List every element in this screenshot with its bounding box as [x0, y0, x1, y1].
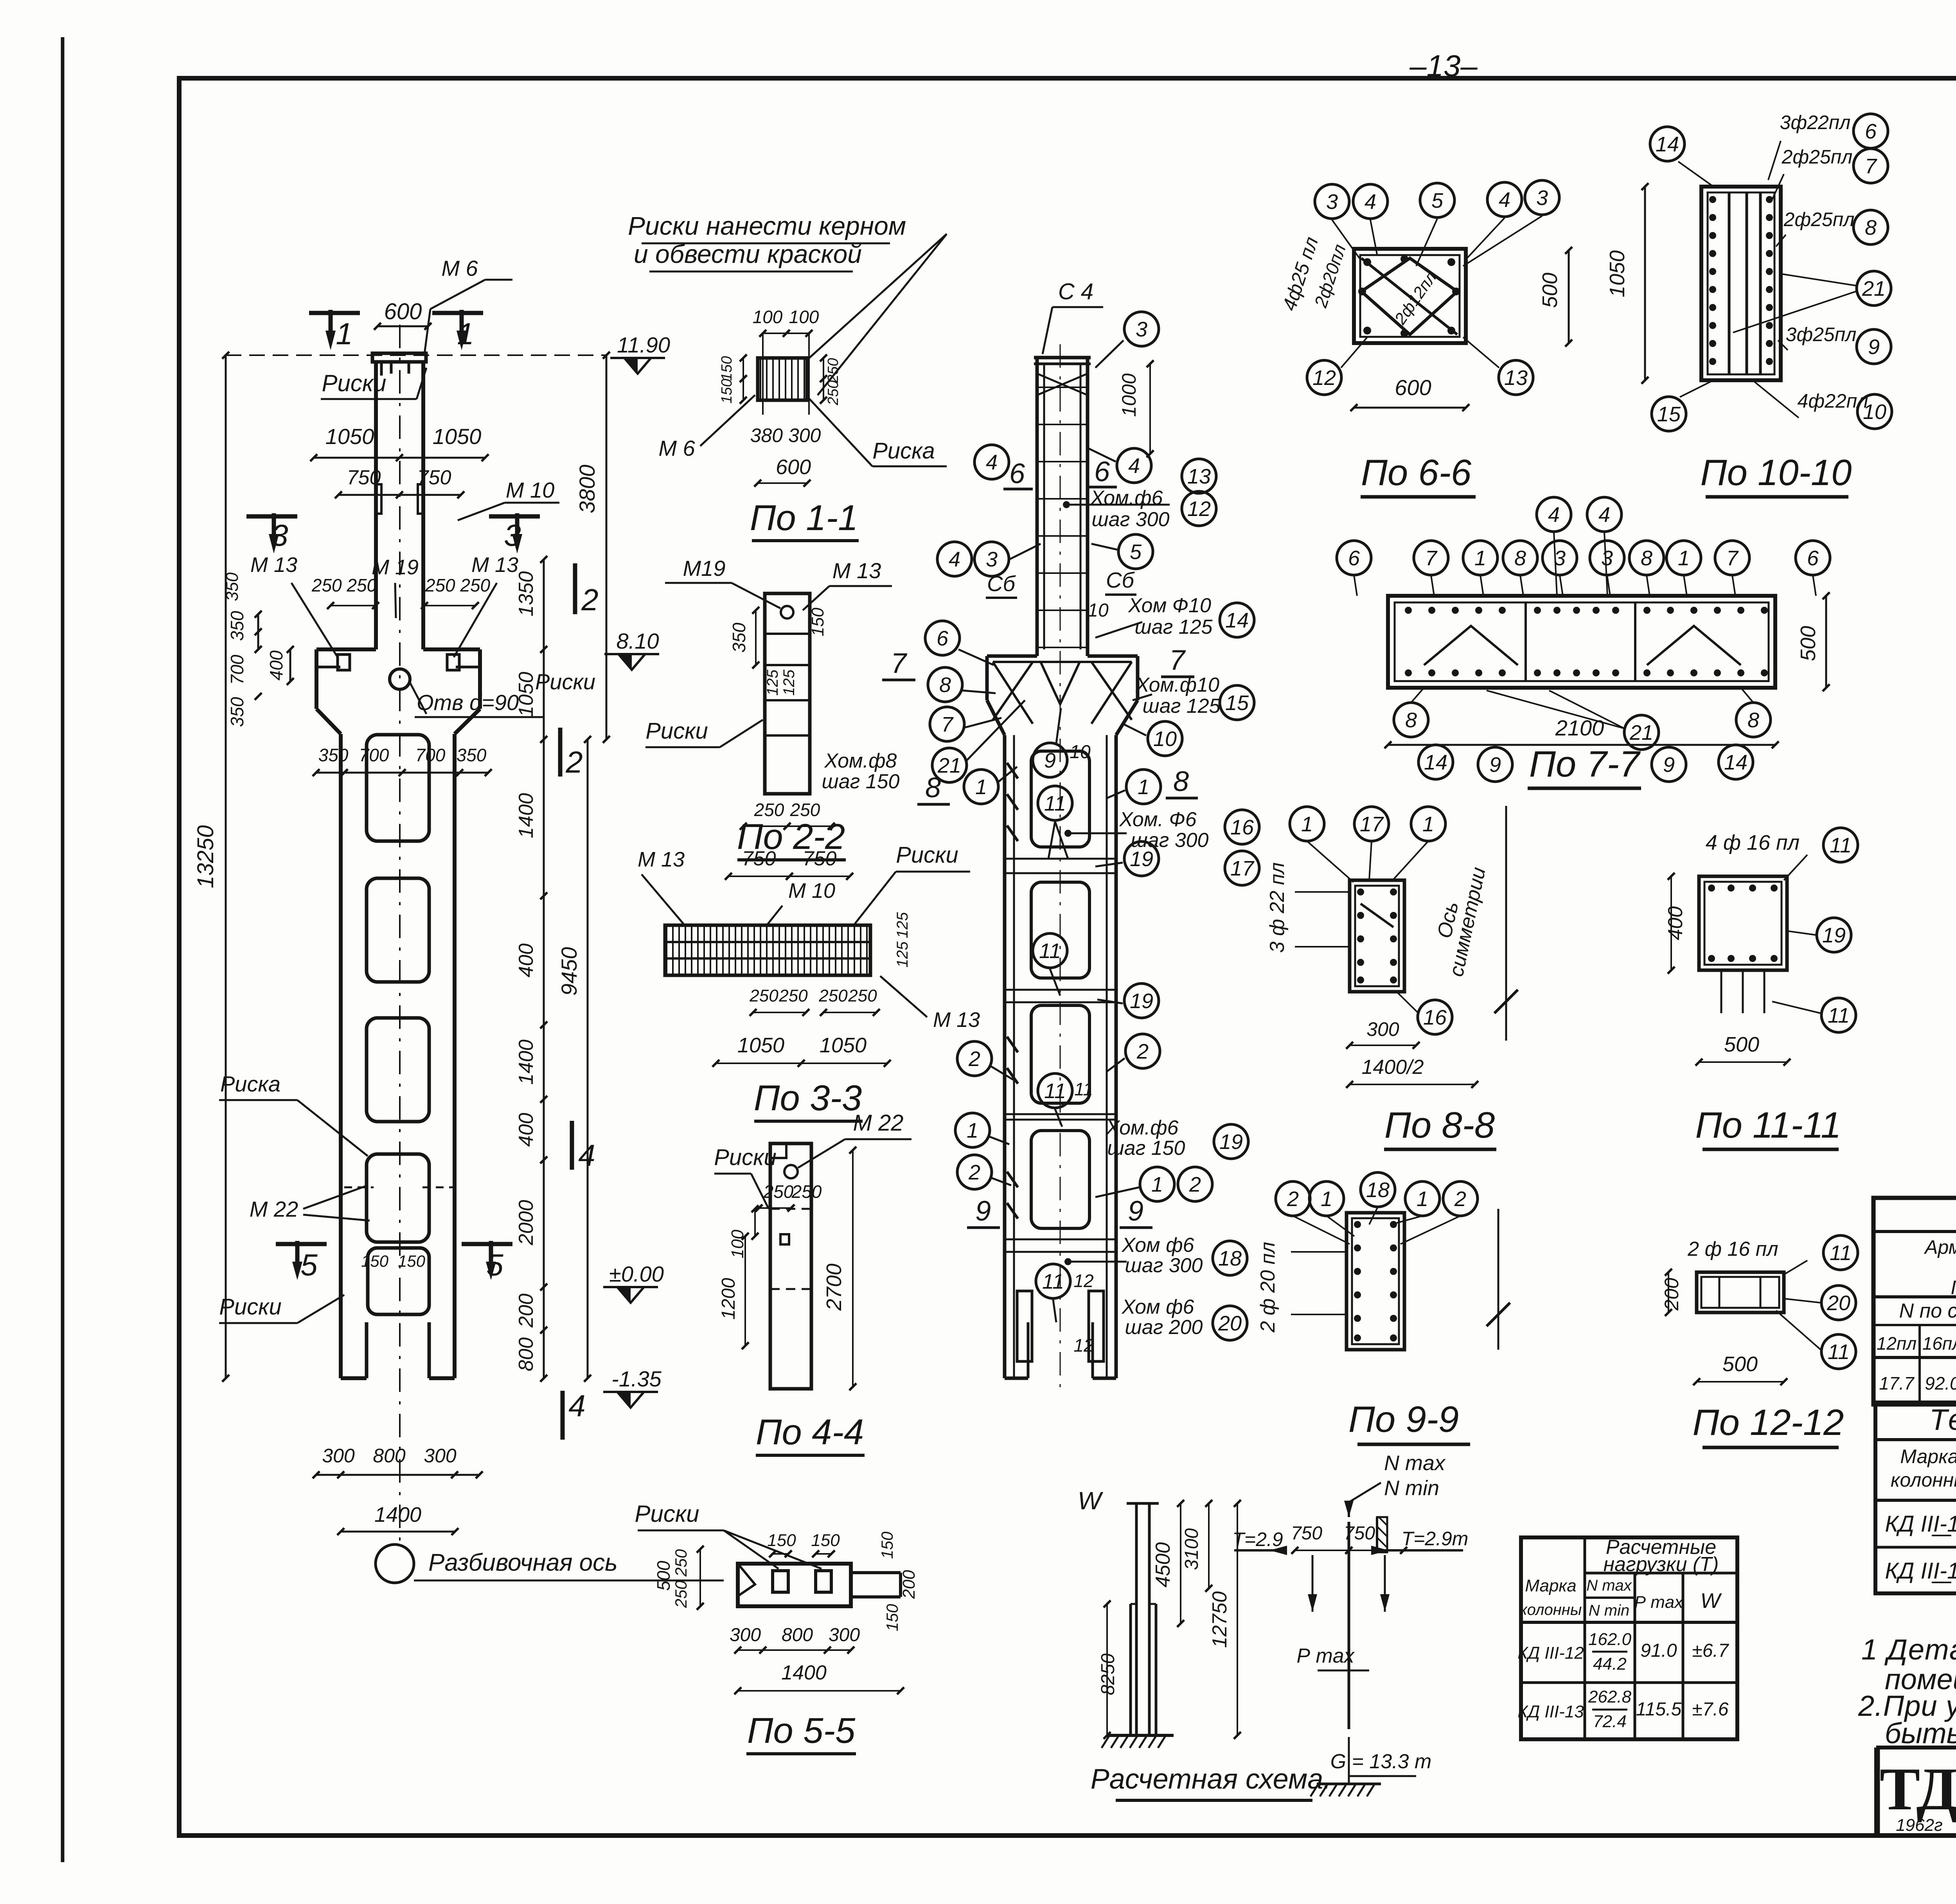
- svg-text:По 7-7: По 7-7: [1529, 743, 1641, 784]
- svg-text:15: 15: [1225, 691, 1249, 715]
- title block: [1876, 1745, 1956, 1836]
- svg-text:4: 4: [568, 1388, 585, 1423]
- svg-text:1: 1: [336, 316, 352, 351]
- svg-text:Марка: Марка: [1900, 1446, 1956, 1467]
- svg-text:400: 400: [515, 944, 538, 978]
- svg-text:Риски нанести керном: Риски нанести керном: [628, 211, 906, 240]
- svg-text:6: 6: [1094, 456, 1110, 487]
- svg-text:4: 4: [1128, 454, 1140, 478]
- svg-text:5: 5: [1130, 540, 1142, 564]
- svg-text:11: 11: [1042, 1270, 1064, 1293]
- section По 11-11: [1664, 828, 1858, 1149]
- svg-text:115.5: 115.5: [1636, 1699, 1682, 1720]
- svg-text:16пл: 16пл: [1922, 1333, 1956, 1354]
- svg-text:М 13: М 13: [250, 553, 297, 577]
- svg-text:18: 18: [1366, 1178, 1390, 1202]
- svg-text:125: 125: [780, 669, 798, 696]
- svg-text:5: 5: [300, 1248, 318, 1282]
- svg-text:С 4: С 4: [1058, 279, 1093, 304]
- svg-text:6: 6: [1865, 120, 1877, 143]
- svg-text:Сб: Сб: [987, 571, 1016, 596]
- svg-text:19: 19: [1130, 847, 1153, 871]
- svg-text:1: 1: [1678, 547, 1690, 570]
- svg-text:44.2: 44.2: [1593, 1654, 1627, 1674]
- svg-text:250: 250: [749, 986, 778, 1005]
- svg-text:Т=2.9: Т=2.9: [1232, 1528, 1283, 1550]
- svg-text:12: 12: [1073, 1271, 1093, 1291]
- svg-text:9: 9: [1663, 753, 1675, 777]
- section По 8-8: [1266, 806, 1518, 1149]
- svg-text:2: 2: [581, 583, 598, 617]
- svg-text:3: 3: [1326, 190, 1338, 214]
- svg-text:350: 350: [457, 745, 487, 765]
- svg-text:Хом.ф10: Хом.ф10: [1135, 674, 1219, 696]
- central column labels and balloons: [822, 279, 1259, 1356]
- svg-text:±6.7: ±6.7: [1692, 1640, 1729, 1661]
- svg-text:125: 125: [764, 669, 781, 696]
- section По 3-3: [638, 842, 980, 1121]
- svg-text:Хом.ф6: Хом.ф6: [1106, 1117, 1179, 1139]
- svg-text:2: 2: [1136, 1040, 1149, 1063]
- svg-text:21: 21: [1629, 721, 1653, 744]
- svg-text:19: 19: [1219, 1130, 1243, 1154]
- svg-text:шаг 300: шаг 300: [1125, 1254, 1203, 1277]
- svg-text:М 13: М 13: [832, 558, 881, 583]
- svg-text:1050: 1050: [433, 424, 482, 449]
- svg-text:7: 7: [1726, 547, 1739, 570]
- svg-text:3ф22пл: 3ф22пл: [1780, 111, 1851, 133]
- svg-text:6: 6: [1348, 547, 1360, 570]
- svg-text:300: 300: [730, 1625, 761, 1645]
- svg-text:М 10: М 10: [506, 478, 555, 502]
- svg-text:150: 150: [719, 356, 735, 381]
- svg-text:М 10: М 10: [788, 879, 835, 903]
- section По 2-2: [645, 556, 892, 860]
- svg-text:2ф25пл: 2ф25пл: [1783, 209, 1855, 230]
- svg-text:2ф25пл: 2ф25пл: [1782, 146, 1853, 168]
- svg-text:7: 7: [1169, 645, 1186, 676]
- section По 5-5: [635, 1501, 919, 1754]
- table: Выборка стали на колонну (кг): [1404, 1192, 1956, 1404]
- svg-text:шаг 300: шаг 300: [1092, 508, 1170, 531]
- svg-text:колонны: колонны: [1891, 1469, 1956, 1491]
- svg-text:350: 350: [729, 622, 749, 653]
- svg-text:Хом.ф6: Хом.ф6: [1090, 487, 1163, 509]
- section По 1-1: [658, 307, 947, 541]
- svg-text:1400: 1400: [515, 1039, 538, 1085]
- svg-text:200: 200: [515, 1294, 538, 1328]
- svg-text:Риски: Риски: [322, 370, 386, 396]
- svg-text:19: 19: [1130, 989, 1153, 1013]
- svg-text:150: 150: [883, 1604, 901, 1631]
- svg-text:2100: 2100: [1555, 716, 1604, 740]
- svg-text:1: 1: [1417, 1187, 1428, 1211]
- svg-text:12: 12: [1187, 497, 1211, 521]
- svg-text:8: 8: [1514, 547, 1526, 570]
- svg-text:1400/2: 1400/2: [1361, 1056, 1424, 1079]
- svg-text:М 6: М 6: [441, 256, 478, 280]
- table: расчетные нагрузки: [1517, 1536, 1737, 1739]
- svg-text:12: 12: [1073, 1335, 1093, 1356]
- svg-text:1: 1: [1138, 775, 1149, 799]
- svg-text:8: 8: [1405, 708, 1417, 732]
- section По 12-12: [1661, 1235, 1858, 1447]
- svg-text:N по сортаменту: N по сортаменту: [1899, 1300, 1956, 1322]
- svg-text:9: 9: [1128, 1196, 1143, 1227]
- svg-text:750: 750: [417, 466, 451, 489]
- svg-text:600: 600: [384, 299, 422, 324]
- svg-text:ГОСТ 5781-61: ГОСТ 5781-61: [1951, 1277, 1956, 1298]
- svg-text:14: 14: [1424, 751, 1447, 774]
- svg-text:350: 350: [227, 697, 247, 727]
- svg-text:8: 8: [939, 673, 951, 697]
- svg-text:4: 4: [1548, 503, 1560, 527]
- svg-text:150: 150: [808, 608, 827, 636]
- svg-text:11: 11: [1828, 1340, 1850, 1364]
- svg-text:250: 250: [818, 986, 848, 1005]
- svg-text:2 ф 20 пл: 2 ф 20 пл: [1257, 1242, 1279, 1333]
- svg-text:G = 13.3 т: G = 13.3 т: [1330, 1750, 1432, 1773]
- svg-text:быть обращены в сторону поддо: быть обращены в сторону поддона.: [1885, 1717, 1956, 1749]
- svg-text:По 3-3: По 3-3: [754, 1078, 862, 1118]
- svg-text:200: 200: [899, 1570, 919, 1599]
- svg-text:150: 150: [811, 1531, 840, 1550]
- svg-text:300: 300: [424, 1445, 457, 1467]
- svg-text:100: 100: [789, 307, 819, 327]
- svg-text:800: 800: [782, 1625, 813, 1645]
- svg-text:8: 8: [1865, 216, 1877, 239]
- svg-text:Технико-экономические показат: Технико-экономические показатели: [1929, 1403, 1956, 1437]
- svg-text:1962г: 1962г: [1896, 1816, 1943, 1835]
- svg-text:400: 400: [515, 1113, 538, 1147]
- svg-text:1050: 1050: [515, 672, 538, 717]
- svg-text:20: 20: [1218, 1312, 1242, 1335]
- svg-text:11: 11: [1830, 1241, 1852, 1265]
- svg-text:380 300: 380 300: [750, 424, 821, 446]
- svg-text:9: 9: [975, 1196, 991, 1227]
- svg-text:1050: 1050: [1605, 250, 1629, 297]
- svg-text:-1.35: -1.35: [611, 1366, 662, 1391]
- svg-text:колонны: колонны: [1520, 1601, 1582, 1618]
- svg-text:300: 300: [1366, 1018, 1399, 1040]
- svg-text:2: 2: [968, 1161, 980, 1184]
- svg-text:КД III-13: КД III-13: [1517, 1702, 1584, 1721]
- svg-text:92.0: 92.0: [1925, 1373, 1956, 1393]
- svg-text:400: 400: [1664, 906, 1687, 940]
- svg-text:2: 2: [968, 1047, 980, 1071]
- svg-text:М 13: М 13: [471, 553, 518, 577]
- svg-text:4: 4: [986, 451, 998, 474]
- svg-text:1400: 1400: [515, 793, 538, 838]
- svg-text:Хом ф6: Хом ф6: [1122, 1296, 1194, 1318]
- svg-text:нагрузки (Т): нагрузки (Т): [1604, 1553, 1719, 1576]
- svg-text:8: 8: [925, 772, 941, 804]
- svg-text:КД III-13: КД III-13: [1885, 1558, 1956, 1584]
- svg-text:W: W: [1701, 1589, 1722, 1613]
- svg-text:150: 150: [878, 1531, 896, 1559]
- svg-text:750: 750: [347, 466, 381, 489]
- svg-text:По 9-9: По 9-9: [1348, 1399, 1459, 1440]
- svg-text:250: 250: [672, 1580, 690, 1608]
- svg-text:162.0: 162.0: [1588, 1630, 1632, 1649]
- svg-text:15: 15: [1657, 403, 1681, 426]
- svg-text:М 22: М 22: [250, 1197, 298, 1221]
- svg-text:N min: N min: [1384, 1476, 1439, 1500]
- svg-text:11: 11: [1044, 792, 1066, 815]
- svg-text:Риски: Риски: [714, 1145, 777, 1170]
- svg-text:250 250: 250 250: [311, 575, 377, 595]
- svg-text:1: 1: [1321, 1187, 1332, 1211]
- svg-text:3100: 3100: [1181, 1528, 1202, 1570]
- central reinforced column elevation: [987, 344, 1138, 1393]
- svg-text:По 12-12: По 12-12: [1693, 1402, 1844, 1443]
- svg-text:14: 14: [1656, 133, 1679, 156]
- svg-text:13: 13: [1187, 465, 1211, 488]
- svg-text:6: 6: [1009, 458, 1025, 489]
- svg-text:250 250: 250 250: [425, 575, 491, 595]
- svg-text:Арматурная сталь: Арматурная сталь: [1924, 1236, 1956, 1258]
- svg-text:10: 10: [1863, 400, 1886, 424]
- svg-text:Риски: Риски: [219, 1294, 282, 1320]
- svg-text:17.7: 17.7: [1879, 1373, 1915, 1393]
- svg-text:Т=2.9т: Т=2.9т: [1402, 1528, 1469, 1550]
- svg-text:11: 11: [1044, 1079, 1066, 1103]
- svg-text:150: 150: [719, 379, 735, 403]
- svg-text:11: 11: [1830, 834, 1852, 857]
- svg-text:300: 300: [322, 1445, 355, 1467]
- svg-text:По 1-1: По 1-1: [750, 498, 858, 538]
- svg-text:700: 700: [227, 654, 247, 685]
- svg-text:шаг 150: шаг 150: [1107, 1137, 1185, 1160]
- svg-text:Риски: Риски: [645, 718, 708, 744]
- svg-text:По 6-6: По 6-6: [1361, 452, 1472, 493]
- svg-text:Риска: Риска: [220, 1072, 280, 1096]
- svg-text:ТД: ТД: [1880, 1755, 1956, 1823]
- расчетная схема figure: [1078, 1451, 1469, 1800]
- svg-text:13250: 13250: [193, 825, 218, 888]
- svg-text:20: 20: [1827, 1291, 1850, 1315]
- svg-text:500: 500: [1538, 273, 1562, 308]
- svg-text:11.90: 11.90: [617, 333, 670, 357]
- svg-text:3: 3: [1136, 318, 1147, 341]
- svg-text:4: 4: [1598, 503, 1610, 527]
- svg-text:300: 300: [829, 1625, 860, 1645]
- svg-text:Марка: Марка: [1525, 1576, 1576, 1595]
- svg-text:150: 150: [398, 1252, 426, 1270]
- svg-text:шаг 200: шаг 200: [1125, 1316, 1203, 1339]
- svg-text:13: 13: [1504, 366, 1528, 390]
- svg-text:КД III-12: КД III-12: [1885, 1511, 1956, 1537]
- svg-text:М 13: М 13: [638, 848, 685, 871]
- svg-text:3800: 3800: [575, 465, 599, 514]
- svg-text:1000: 1000: [1118, 373, 1140, 417]
- svg-text:2: 2: [1287, 1187, 1299, 1211]
- svg-text:1400: 1400: [781, 1661, 827, 1684]
- svg-text:шаг 125: шаг 125: [1135, 616, 1213, 638]
- svg-text:3: 3: [986, 548, 998, 571]
- svg-text:1050: 1050: [325, 424, 374, 449]
- svg-text:КД III-12: КД III-12: [1517, 1643, 1584, 1663]
- svg-text:9: 9: [1044, 749, 1056, 772]
- svg-text:250: 250: [778, 986, 808, 1005]
- svg-text:11: 11: [1828, 1004, 1850, 1027]
- svg-text:750: 750: [742, 847, 776, 870]
- svg-text:800: 800: [373, 1445, 406, 1467]
- svg-text:1050: 1050: [737, 1034, 784, 1057]
- svg-text:3ф25пл: 3ф25пл: [1786, 324, 1857, 345]
- svg-text:750: 750: [803, 847, 837, 870]
- svg-text:11: 11: [1074, 1079, 1093, 1099]
- svg-text:8.10: 8.10: [617, 629, 659, 653]
- svg-text:700: 700: [359, 745, 389, 765]
- svg-text:12750: 12750: [1208, 1591, 1231, 1648]
- section По 9-9: [1257, 1172, 1510, 1444]
- svg-text:М 6: М 6: [658, 436, 695, 460]
- svg-text:Р max: Р max: [1296, 1645, 1355, 1667]
- svg-text:М 19: М 19: [372, 556, 419, 579]
- svg-text:262.8: 262.8: [1588, 1687, 1632, 1706]
- svg-text:1200: 1200: [718, 1278, 739, 1320]
- svg-text:1: 1: [975, 775, 987, 799]
- svg-text:400: 400: [266, 650, 286, 680]
- svg-text:10: 10: [1088, 600, 1109, 621]
- svg-text:N max: N max: [1384, 1451, 1446, 1475]
- svg-text:125: 125: [894, 912, 911, 938]
- svg-text:21: 21: [1862, 277, 1886, 300]
- svg-text:500: 500: [1722, 1352, 1758, 1376]
- svg-text:350: 350: [318, 745, 349, 765]
- svg-text:12: 12: [1312, 366, 1336, 390]
- svg-text:9: 9: [1868, 335, 1880, 359]
- section По 7-7: [1337, 497, 1830, 788]
- svg-text:500: 500: [1796, 626, 1820, 661]
- binding edge line: [61, 37, 65, 1862]
- svg-text:200: 200: [1661, 1278, 1683, 1311]
- svg-text:100: 100: [728, 1230, 747, 1259]
- svg-text:1350: 1350: [515, 571, 538, 617]
- svg-text:±0.00: ±0.00: [609, 1262, 664, 1286]
- svg-text:W: W: [1078, 1487, 1104, 1515]
- svg-text:Отв d=90: Отв d=90: [417, 690, 519, 715]
- svg-text:91.0: 91.0: [1640, 1640, 1677, 1661]
- svg-text:М 22: М 22: [853, 1110, 904, 1136]
- svg-text:7: 7: [941, 713, 954, 736]
- svg-text:1: 1: [1301, 813, 1313, 836]
- svg-text:Хом Ф10: Хом Ф10: [1128, 594, 1211, 617]
- svg-text:19: 19: [1822, 924, 1846, 947]
- svg-text:7: 7: [1865, 155, 1877, 178]
- svg-text:4: 4: [1365, 190, 1376, 214]
- notes Примечания: [1858, 1598, 1956, 1749]
- svg-text:Сб: Сб: [1106, 568, 1135, 592]
- svg-text:125: 125: [894, 941, 911, 967]
- svg-text:500: 500: [653, 1561, 674, 1591]
- svg-text:250: 250: [825, 358, 841, 383]
- section По 10-10: [1605, 111, 1892, 497]
- svg-text:Хом ф6: Хом ф6: [1122, 1234, 1194, 1257]
- svg-text:Разбивочная ось: Разбивочная ось: [428, 1549, 618, 1576]
- svg-text:Хом. Ф6: Хом. Ф6: [1119, 808, 1196, 831]
- svg-text:18: 18: [1218, 1247, 1242, 1270]
- svg-text:Риски: Риски: [896, 842, 958, 868]
- svg-text:4500: 4500: [1152, 1542, 1174, 1588]
- svg-text:Риска: Риска: [872, 438, 935, 464]
- svg-text:2000: 2000: [515, 1200, 538, 1246]
- svg-text:72.4: 72.4: [1593, 1712, 1627, 1731]
- svg-text:2: 2: [565, 745, 582, 779]
- svg-text:По 10-10: По 10-10: [1701, 452, 1852, 493]
- svg-text:250: 250: [763, 1181, 794, 1202]
- svg-text:150: 150: [361, 1252, 389, 1270]
- svg-text:250: 250: [791, 1181, 822, 1202]
- svg-text:600: 600: [1395, 375, 1431, 400]
- svg-text:1: 1: [1151, 1173, 1163, 1196]
- svg-text:7: 7: [891, 648, 908, 679]
- note риски нанести керном: [628, 211, 947, 395]
- svg-text:14: 14: [1724, 751, 1747, 774]
- page number -13-: [1409, 49, 1478, 83]
- svg-text:±7.6: ±7.6: [1692, 1699, 1728, 1720]
- svg-text:12пл: 12пл: [1877, 1333, 1916, 1354]
- svg-text:4: 4: [1499, 188, 1510, 212]
- svg-text:шаг 150: шаг 150: [822, 770, 900, 793]
- left column dimensions: [193, 256, 724, 1583]
- svg-text:8250: 8250: [1098, 1653, 1118, 1695]
- svg-text:16: 16: [1423, 1006, 1447, 1029]
- svg-text:250: 250: [848, 986, 877, 1005]
- svg-text:N max: N max: [1586, 1577, 1632, 1594]
- svg-text:9450: 9450: [557, 947, 581, 996]
- svg-text:3: 3: [1536, 186, 1548, 210]
- section По 4-4: [712, 1110, 911, 1455]
- svg-text:4: 4: [578, 1138, 595, 1172]
- svg-text:10: 10: [1153, 727, 1177, 751]
- svg-text:9: 9: [1489, 753, 1501, 777]
- svg-text:1: 1: [1422, 813, 1434, 836]
- svg-text:По 11-11: По 11-11: [1695, 1104, 1841, 1145]
- svg-text:Хом.ф8: Хом.ф8: [824, 750, 897, 772]
- svg-text:2: 2: [1189, 1173, 1201, 1196]
- svg-text:6: 6: [937, 627, 949, 650]
- section По 6-6: [1278, 180, 1572, 497]
- svg-text:16: 16: [1230, 816, 1254, 839]
- svg-text:500: 500: [1724, 1033, 1759, 1056]
- svg-text:5: 5: [1431, 189, 1444, 212]
- svg-text:1400: 1400: [374, 1503, 421, 1526]
- svg-text:7: 7: [1425, 547, 1438, 570]
- left column elevation view: [316, 325, 480, 1541]
- svg-text:10: 10: [1070, 742, 1091, 762]
- svg-text:350: 350: [227, 611, 247, 641]
- svg-text:3 ф 22 пл: 3 ф 22 пл: [1266, 862, 1289, 953]
- svg-text:6: 6: [1807, 547, 1819, 570]
- svg-text:100: 100: [753, 307, 783, 327]
- svg-text:750: 750: [1344, 1523, 1375, 1544]
- svg-text:800: 800: [515, 1338, 538, 1372]
- svg-text:14: 14: [1225, 609, 1249, 632]
- svg-text:Расчетная схема.: Расчетная схема.: [1091, 1764, 1331, 1795]
- svg-text:600: 600: [776, 455, 811, 479]
- svg-text:21: 21: [937, 754, 961, 777]
- svg-text:Р max: Р max: [1634, 1593, 1684, 1612]
- svg-text:150: 150: [767, 1531, 796, 1550]
- svg-text:3: 3: [1601, 547, 1613, 570]
- svg-text:N min: N min: [1589, 1602, 1629, 1619]
- svg-text:1050: 1050: [820, 1034, 867, 1057]
- svg-text:700: 700: [415, 745, 446, 765]
- svg-text:1 Детали колонн закладные элем: 1 Детали колонн закладные элементы и сет…: [1861, 1633, 1956, 1666]
- svg-text:1: 1: [1474, 547, 1486, 570]
